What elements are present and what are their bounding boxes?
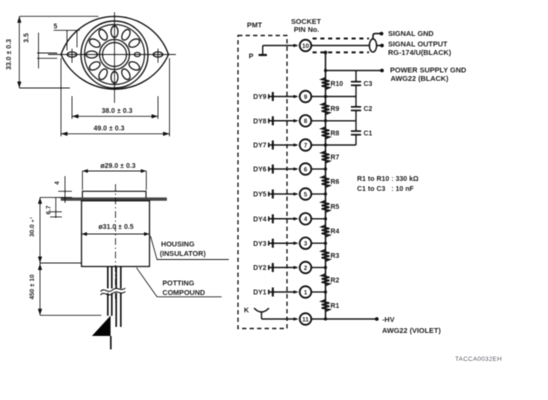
wire pin8 to bus and capacitor bus — [311, 120, 356, 122]
svg-text:RG-174/U(BLACK): RG-174/U(BLACK) — [388, 48, 452, 57]
socket top view: flange outline (eye shape) — [61, 16, 169, 89]
socket pin 1 — [300, 286, 312, 298]
svg-text:R1 to R10 : 330 kΩ: R1 to R10 : 330 kΩ — [357, 176, 419, 183]
capacitor C3 — [351, 71, 373, 97]
housing body — [82, 201, 150, 267]
svg-text:DY4: DY4 — [253, 216, 267, 223]
svg-text:38.0 ± 0.3: 38.0 ± 0.3 — [101, 108, 132, 115]
wire pin2 to bus — [311, 267, 325, 269]
dynode DY6 — [253, 164, 298, 173]
resistor R5 — [322, 201, 340, 213]
svg-text:11: 11 — [302, 316, 309, 323]
component values note — [357, 176, 419, 193]
wire pin9 to bus and capacitor bus — [311, 96, 356, 98]
svg-text:5: 5 — [54, 24, 58, 31]
socket pin 10 — [300, 40, 312, 52]
svg-text:DY1: DY1 — [253, 290, 267, 297]
svg-text:450 ± 10: 450 ± 10 — [29, 274, 36, 300]
svg-text:R10: R10 — [331, 81, 344, 88]
capacitor C2 — [351, 97, 373, 121]
coax shield ellipse — [369, 39, 376, 52]
svg-text:49.0 ± 0.3: 49.0 ± 0.3 — [93, 125, 124, 132]
svg-text:3: 3 — [304, 241, 308, 248]
left mounting slot — [67, 52, 77, 57]
svg-text:HOUSING: HOUSING — [161, 240, 195, 249]
svg-text:POTTING: POTTING — [162, 279, 194, 288]
dynode DY7 — [253, 140, 298, 149]
coax shield dashed lines — [313, 38, 370, 40]
svg-text:R4: R4 — [331, 229, 340, 236]
svg-text:R1: R1 — [331, 303, 340, 310]
socket pin 3 — [300, 237, 312, 249]
wire pin6 to bus — [311, 168, 325, 170]
svg-text:COMPOUND: COMPOUND — [162, 288, 205, 297]
svg-text:2: 2 — [304, 265, 308, 272]
key slot hole (right) — [134, 52, 140, 56]
svg-text:C1: C1 — [364, 131, 373, 138]
svg-text:PIN No.: PIN No. — [294, 25, 320, 34]
svg-text:AWG22 (VIOLET): AWG22 (VIOLET) — [382, 326, 441, 335]
dynode DY2 — [253, 263, 298, 272]
output labels — [388, 29, 466, 83]
resistor bus wire — [325, 52, 327, 319]
wire pin5 to bus — [311, 193, 325, 195]
socket pin 8 — [300, 115, 312, 127]
svg-text:P: P — [249, 52, 254, 61]
resistor R7 — [322, 151, 340, 163]
-HV output — [375, 317, 379, 321]
svg-text:ø29.0 ± 0.3: ø29.0 ± 0.3 — [100, 163, 135, 170]
svg-text:(INSULATOR): (INSULATOR) — [160, 249, 207, 258]
cathode K — [244, 306, 299, 321]
dynode DY5 — [253, 189, 298, 198]
resistor R8 — [322, 127, 340, 139]
svg-text:4: 4 — [304, 216, 308, 223]
crosshair center lines — [114, 12, 116, 103]
dimension 450 +/- 10 (vertical) — [40, 263, 102, 315]
wire pin1 to bus — [311, 291, 325, 293]
svg-text:7: 7 — [304, 142, 308, 149]
right mounting slot — [153, 52, 163, 57]
wire pin4 to bus — [311, 218, 325, 220]
svg-text:5: 5 — [304, 191, 308, 198]
wire pin3 to bus — [311, 242, 325, 244]
svg-text:C3: C3 — [364, 81, 373, 88]
dimension 38.0 +/- 0.3 — [72, 96, 158, 119]
svg-text:-HV: -HV — [382, 315, 395, 324]
socket lip circle — [85, 25, 145, 85]
resistor R2 — [322, 274, 340, 286]
svg-text:6: 6 — [304, 166, 308, 173]
svg-text:6.7: 6.7 — [46, 205, 53, 214]
mounting flange (gray bar) — [61, 197, 167, 200]
svg-text:DY3: DY3 — [253, 241, 267, 248]
dynode DY3 — [253, 239, 298, 248]
resistor R4 — [322, 225, 340, 237]
dimension 33.0 +/- 0.3 (vertical, left) — [19, 16, 98, 88]
svg-text:R8: R8 — [331, 131, 340, 138]
signal gnd wire from shield top — [373, 34, 380, 40]
svg-text:R7: R7 — [331, 155, 340, 162]
socket pin 4 — [300, 213, 312, 225]
resistor R9 — [322, 103, 340, 115]
wire pin10 to coax — [311, 45, 369, 47]
svg-text:R6: R6 — [331, 179, 340, 186]
wire P to pin 10 — [263, 45, 297, 47]
svg-text:R3: R3 — [331, 253, 340, 260]
cable break mark — [100, 289, 127, 294]
dynode DY4 — [253, 214, 298, 223]
socket pin 11 — [300, 313, 312, 325]
center line (dash-dot) — [115, 184, 117, 302]
cables below housing — [108, 267, 121, 328]
socket pin 7 — [300, 139, 312, 151]
pin hole ovals ring — [86, 26, 141, 83]
svg-text:DY5: DY5 — [253, 192, 267, 199]
socket pin 9 — [300, 91, 312, 103]
wire pin7 to bus and capacitor bus — [311, 144, 356, 146]
signal output wire and dot — [377, 45, 381, 47]
svg-text:SIGNAL GND: SIGNAL GND — [388, 29, 434, 38]
center hole circles — [100, 40, 130, 70]
svg-text:DY7: DY7 — [253, 143, 267, 150]
black cable marker flag — [92, 316, 111, 337]
svg-text:4: 4 — [54, 181, 61, 185]
resistor R10 — [322, 78, 344, 90]
dynode DY9 — [253, 92, 298, 101]
svg-text:DY2: DY2 — [253, 265, 267, 272]
top node wire to POWER SUPPLY GND — [326, 70, 382, 72]
svg-text:POWER SUPPLY GND: POWER SUPPLY GND — [390, 65, 466, 74]
svg-text:9: 9 — [304, 94, 308, 101]
dimension 49.0 +/- 0.3 — [61, 58, 170, 137]
svg-text:C1 to C3 : 10 nF: C1 to C3 : 10 nF — [357, 186, 415, 193]
dynode DY1 — [253, 287, 298, 296]
svg-text:R9: R9 — [331, 106, 340, 113]
socket body circle — [81, 21, 148, 88]
PMT dashed box — [238, 36, 287, 329]
svg-text:3.5: 3.5 — [24, 33, 31, 43]
wire pin11 to -HV — [311, 318, 376, 320]
svg-text:C2: C2 — [364, 106, 373, 113]
svg-text:TACCA0032EH: TACCA0032EH — [455, 356, 502, 363]
housing top cap rect — [82, 191, 146, 199]
svg-text:30.0 ₊¹: 30.0 ₊¹ — [29, 217, 36, 237]
leader: HOUSING (INSULATOR) — [151, 236, 230, 260]
svg-text:R5: R5 — [331, 204, 340, 211]
resistor R1 — [322, 300, 340, 312]
resistor R6 — [322, 176, 340, 188]
dimension 30.0 (vertical) — [40, 197, 82, 263]
dynode DY8 — [253, 116, 298, 125]
svg-text:8: 8 — [304, 118, 308, 125]
svg-text:1: 1 — [304, 289, 308, 296]
leader: POTTING COMPOUND — [137, 268, 222, 297]
cable end below flag — [110, 336, 112, 350]
svg-text:ø31.0 ± 0.5: ø31.0 ± 0.5 — [98, 224, 133, 231]
svg-text:AWG22 (BLACK): AWG22 (BLACK) — [391, 74, 450, 83]
svg-text:DY9: DY9 — [253, 94, 267, 101]
svg-text:R2: R2 — [331, 277, 340, 284]
svg-text:DY6: DY6 — [253, 167, 267, 174]
resistor R3 — [322, 250, 340, 262]
socket pin 5 — [300, 188, 312, 200]
socket pin 2 — [300, 262, 312, 274]
svg-text:DY8: DY8 — [253, 118, 267, 125]
socket pin 6 — [300, 163, 312, 175]
capacitor C1 — [351, 121, 373, 145]
svg-text:33.0 ± 0.3: 33.0 ± 0.3 — [6, 39, 13, 70]
svg-text:K: K — [244, 306, 250, 315]
svg-text:10: 10 — [302, 43, 310, 50]
svg-text:PMT: PMT — [247, 21, 263, 30]
